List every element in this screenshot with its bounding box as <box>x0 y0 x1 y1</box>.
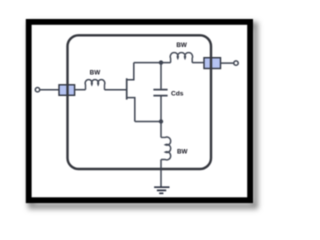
inductor L3 (source degeneration, BW) <box>161 137 171 160</box>
wire source to bottom node <box>135 121 161 123</box>
node junction dot (source / Cds bottom / L3) <box>159 119 163 123</box>
frame drop shadow <box>31 25 255 206</box>
svg-text:BW: BW <box>90 69 101 76</box>
capacitor Cds top lead <box>160 63 162 89</box>
port pad P1 (left, on box edge) <box>59 85 75 96</box>
wire L2 to right pad <box>192 62 204 64</box>
wire left pad to inductor L1 <box>75 89 86 91</box>
inductor L1 (input, BW) <box>85 80 105 90</box>
svg-text:BW: BW <box>177 149 188 156</box>
transistor Q1 source lead <box>127 98 135 122</box>
port pad P2 (right, on box edge) <box>204 58 221 69</box>
wire bottom node to inductor L3 <box>160 122 162 138</box>
wire right pad to output circle <box>221 62 234 64</box>
transistor Q1 gate bar <box>126 78 128 99</box>
svg-text:BW: BW <box>176 42 187 49</box>
wire L3 to ground <box>160 160 162 188</box>
wire drain rail to top node <box>134 62 171 64</box>
svg-text:Cds: Cds <box>171 90 184 97</box>
amplifier box (rounded rectangle) <box>68 35 212 169</box>
inductor L2 (output, BW) <box>170 53 192 63</box>
output port terminal circle <box>234 61 238 65</box>
wire input circle to left pad <box>40 89 59 91</box>
wire L1 to transistor gate <box>105 89 127 91</box>
transistor Q1 drain lead <box>127 63 134 80</box>
ground symbol <box>154 187 169 193</box>
capacitor Cds plates <box>153 90 167 96</box>
picture frame border <box>29 22 250 200</box>
node junction dot (drain / Cds top) <box>159 60 163 64</box>
input port terminal circle <box>35 88 39 92</box>
capacitor Cds bottom lead <box>160 96 162 121</box>
